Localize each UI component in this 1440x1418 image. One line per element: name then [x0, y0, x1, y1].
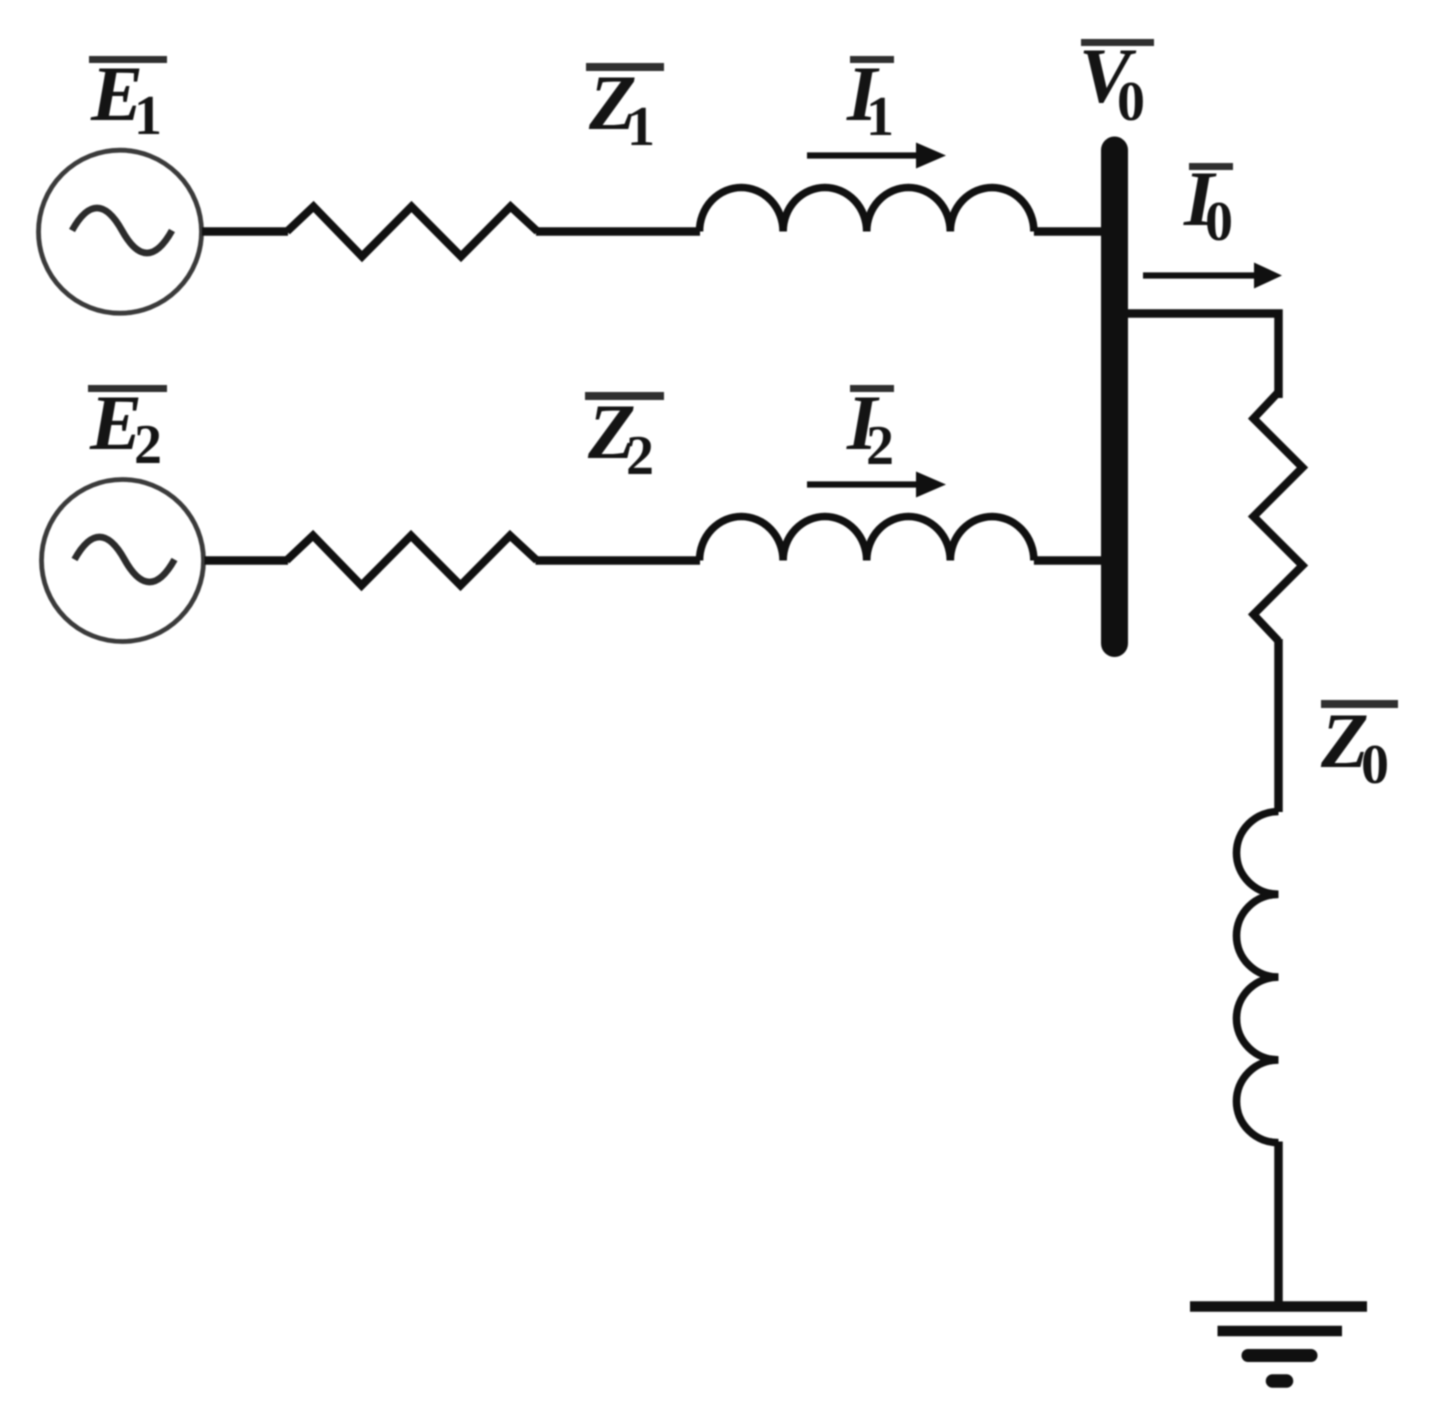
- wire bus to right branch: [1128, 314, 1279, 399]
- bus bar V0: [1101, 150, 1128, 644]
- overbar I1: [850, 56, 894, 63]
- inductor L0: [1237, 812, 1279, 1143]
- wire L2 to bus: [1034, 556, 1106, 565]
- wire E1 to R1: [202, 227, 288, 236]
- overbar I2: [850, 385, 894, 392]
- overbar Z1: [586, 63, 664, 71]
- inductor L1: [700, 188, 1034, 232]
- overbar E2: [88, 385, 167, 392]
- wire L0 to ground: [1274, 1142, 1283, 1306]
- ground bar 3: [1248, 1349, 1311, 1362]
- arrow I0 shaft: [1143, 272, 1259, 278]
- overbar Z0: [1321, 700, 1398, 708]
- resistor Z2: [287, 536, 538, 586]
- wire R2 to L2: [536, 556, 701, 565]
- overbar Z2: [585, 392, 664, 400]
- svg-text:1: 1: [627, 96, 655, 158]
- arrow I2 shaft: [807, 481, 921, 487]
- arrow I2 head: [916, 472, 946, 498]
- svg-text:0: 0: [1361, 734, 1389, 796]
- sine wave E1: [72, 208, 172, 253]
- inductor L2: [700, 517, 1034, 561]
- arrow I1 head: [916, 143, 946, 169]
- resistor Z0: [1254, 392, 1303, 641]
- svg-text:2: 2: [866, 415, 894, 477]
- svg-text:2: 2: [134, 414, 162, 476]
- arrow I1 shaft: [807, 152, 921, 158]
- wire R0 to L0: [1274, 639, 1283, 812]
- svg-text:1: 1: [134, 85, 162, 147]
- ground bar 4: [1273, 1374, 1287, 1388]
- overbar V0: [1081, 39, 1154, 46]
- wire R1 to L1: [536, 227, 700, 236]
- ground bar 2: [1218, 1326, 1343, 1337]
- wire E2 to R2: [205, 556, 289, 565]
- ground bar 1: [1190, 1301, 1367, 1312]
- arrow I0 head: [1254, 263, 1282, 289]
- resistor Z1: [287, 207, 538, 257]
- sine wave E2: [75, 537, 175, 582]
- source E1: [39, 150, 202, 313]
- svg-text:1: 1: [866, 86, 894, 148]
- svg-text:0: 0: [1205, 191, 1233, 253]
- wire L1 to bus: [1034, 227, 1106, 236]
- svg-text:0: 0: [1117, 71, 1145, 133]
- svg-text:2: 2: [626, 425, 654, 487]
- source E2: [42, 480, 204, 642]
- overbar E1: [89, 56, 167, 63]
- overbar I0: [1189, 163, 1233, 170]
